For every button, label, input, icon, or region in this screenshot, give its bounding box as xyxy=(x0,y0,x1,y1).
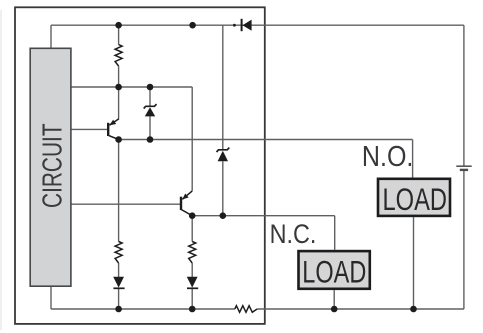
wire zener ZD1 anode lead xyxy=(149,116,151,139)
junction dot rail R1 xyxy=(115,22,122,29)
diode D1 reverse-polarity series xyxy=(242,19,252,31)
wire resistor R3 top lead xyxy=(191,216,193,242)
resistor R2 xyxy=(115,242,122,264)
junction dot Q2 collector xyxy=(189,212,196,219)
resistor R3 xyxy=(189,242,196,264)
junction dot common rail N.O. load xyxy=(410,306,417,313)
junction dot node A at ZD1 xyxy=(147,84,154,91)
wire from CIRCUIT top to positive rail xyxy=(50,25,52,48)
junction dot small rail anode side xyxy=(233,24,236,27)
transistor Q1 xyxy=(108,119,119,140)
junction dot common rail D3 xyxy=(189,306,196,313)
wire bottom common rail (right of resistor R4) xyxy=(257,308,464,310)
wire diode D2 cathode to common rail xyxy=(118,288,120,309)
svg-text:N.C.: N.C. xyxy=(270,219,317,249)
wire right side down to battery + terminal xyxy=(463,25,465,166)
wire N.C. LOAD bottom to common rail xyxy=(333,290,335,309)
wire from CIRCUIT bottom to common rail xyxy=(50,286,52,309)
wire resistor R2 top lead xyxy=(118,140,120,242)
wire top positive supply rail xyxy=(51,24,464,26)
junction dot common rail D2 xyxy=(115,306,122,313)
wire Q1 emitter vertical lead xyxy=(118,87,120,119)
wire Q2 emitter vertical lead xyxy=(191,87,193,191)
junction dot rail Q2 column xyxy=(189,22,196,29)
wire N.O. output down to LOAD xyxy=(412,140,414,178)
resistor R1 xyxy=(115,45,122,67)
diode D3 xyxy=(187,277,198,289)
load box N.C. xyxy=(299,251,370,289)
svg-text:CIRCUIT: CIRCUIT xyxy=(36,123,67,208)
zener diode ZD2 xyxy=(217,148,230,162)
wire N.O. output net horizontal xyxy=(119,139,413,141)
wire N.C. output net horizontal xyxy=(192,215,335,217)
wire bottom common rail (left of resistor R4) xyxy=(51,308,235,310)
svg-text:LOAD: LOAD xyxy=(383,182,448,217)
battery BT1 xyxy=(456,166,471,170)
diode D2 xyxy=(113,277,124,289)
junction dot common rail N.C. load xyxy=(331,306,338,313)
zener diode ZD1 xyxy=(144,104,157,116)
wire node A horizontal from CIRCUIT to Q2 emitter branch xyxy=(71,86,192,88)
wire resistor R3 bottom to diode D3 xyxy=(191,263,193,277)
wire resistor R2 bottom to diode D2 xyxy=(118,263,120,277)
transistor Q2 xyxy=(181,191,192,216)
junction dot Q1 collector xyxy=(115,136,122,143)
wire Q2 base lead from CIRCUIT xyxy=(71,203,181,205)
svg-text:N.O.: N.O. xyxy=(362,141,414,173)
junction dot ZD1 anode xyxy=(147,136,154,143)
junction dot ZD2 anode xyxy=(220,212,227,219)
wire battery - terminal down to bottom rail xyxy=(463,170,465,309)
wire zener ZD1 cathode lead xyxy=(149,87,151,107)
wire Q1 base lead from CIRCUIT xyxy=(71,128,108,130)
load box N.O. xyxy=(378,179,450,217)
wire zener ZD2 cathode lead from rail xyxy=(222,25,224,150)
wire N.C. output down to LOAD xyxy=(334,216,336,250)
circuit enclosure border xyxy=(15,7,265,324)
wire zener ZD2 anode lead xyxy=(222,161,224,215)
wire resistor R1 top lead xyxy=(118,25,120,44)
wire diode D3 cathode to common rail xyxy=(191,288,193,309)
wire resistor R1 bottom lead to node A xyxy=(118,66,120,87)
svg-text:LOAD: LOAD xyxy=(302,255,366,290)
resistor R4 xyxy=(235,306,257,313)
CIRCUIT block xyxy=(30,48,71,286)
junction dot node A at R1 xyxy=(115,84,122,91)
wire N.O. LOAD bottom to common rail xyxy=(413,217,415,309)
